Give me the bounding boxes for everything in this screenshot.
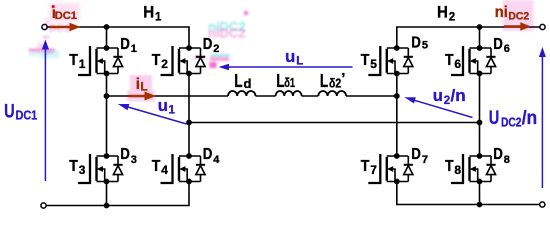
- svg-text:L: L: [296, 55, 303, 67]
- svg-text:/n: /n: [451, 87, 466, 105]
- current arrow niDC2: [504, 25, 521, 28]
- diode D7: [404, 156, 413, 182]
- svg-text:ni: ni: [495, 4, 508, 21]
- svg-text:δ1: δ1: [284, 75, 295, 90]
- svg-text:DC1: DC1: [55, 10, 77, 22]
- ghost highlight behind iDC1 label: [49, 3, 80, 22]
- wire: H1 bottom rail with corner up to T4: [46, 182, 189, 206]
- svg-text:T: T: [69, 158, 78, 175]
- svg-text:3: 3: [79, 163, 86, 177]
- diode D5: [404, 48, 413, 74]
- svg-text:T: T: [152, 158, 161, 175]
- svg-text:8: 8: [504, 154, 510, 166]
- svg-text:2: 2: [213, 43, 219, 55]
- ghost cyan dash left of uL arrow: [211, 54, 230, 57]
- ghost pink line through D2: [195, 56, 206, 59]
- transistor T1: [78, 45, 118, 76]
- terminal: DC1 negative: [41, 203, 46, 208]
- wire: H2 leg B middle (T6 source to T8 drain): [479, 74, 481, 157]
- svg-text:2: 2: [161, 57, 168, 71]
- wire: T8 leg to bottom rail: [479, 182, 481, 205]
- diode D3: [113, 156, 122, 182]
- wire: between Ldelta1 and Ldelta2: [302, 95, 319, 97]
- ghost pink dot above: [244, 11, 249, 16]
- node: lower link at H2 leg B: [477, 120, 483, 126]
- svg-text:T: T: [445, 52, 454, 69]
- svg-text:T: T: [69, 52, 78, 69]
- svg-text:D: D: [493, 146, 503, 163]
- terminal: DC2 positive: [540, 24, 545, 29]
- inductor Ldelta1: [276, 91, 302, 96]
- transistor T7: [368, 153, 408, 184]
- svg-text:T: T: [361, 52, 370, 69]
- svg-text:U: U: [4, 101, 15, 123]
- node: u1 upper node on leg A: [104, 93, 110, 99]
- svg-text:D: D: [120, 36, 130, 53]
- svg-text:’: ’: [341, 70, 345, 87]
- node: T1 leg / top rail junction: [104, 24, 110, 30]
- svg-text:L: L: [141, 81, 148, 93]
- ghost highlight behind niDC2 label and arrow: [503, 0, 534, 31]
- voltage arrow UDC1: [44, 48, 46, 181]
- transistor T3: [78, 153, 118, 184]
- svg-text:1: 1: [169, 105, 176, 117]
- svg-text:niDC2: niDC2: [208, 26, 246, 41]
- wire: lower link line leg B to H2 leg B: [189, 122, 480, 124]
- svg-text:U: U: [489, 107, 500, 129]
- transistor T8: [451, 153, 491, 184]
- node: upper link at H2 leg A: [394, 93, 400, 99]
- node: u1 lower node on leg B: [186, 120, 192, 126]
- wire: leg A middle (T1 source to T3 drain): [106, 74, 108, 157]
- wire: leg B middle (T2 source to T4 drain): [188, 74, 190, 157]
- svg-text:D: D: [120, 146, 130, 163]
- svg-text:2: 2: [449, 12, 455, 24]
- voltage arrow uL: [228, 66, 353, 68]
- svg-text:1: 1: [155, 12, 162, 24]
- wire: T3 leg to bottom rail: [106, 182, 108, 206]
- wire: H2 top rail with corner down to T5: [397, 27, 540, 48]
- svg-text:T: T: [152, 52, 161, 69]
- wire: H2 leg A middle (T5 source to T7 drain): [396, 74, 398, 157]
- node: T8 leg / H2 bottom rail junction: [477, 202, 483, 208]
- node: T6 leg / H2 top rail junction: [477, 24, 483, 30]
- transistor T4: [161, 153, 201, 184]
- svg-text:8: 8: [454, 163, 461, 177]
- ghost patch at UDC1 arrowhead: [38, 43, 45, 52]
- svg-text:4: 4: [213, 154, 220, 166]
- svg-text:D: D: [411, 146, 421, 163]
- svg-text:D: D: [203, 146, 213, 163]
- node: T3 leg / bottom rail junction: [104, 203, 110, 209]
- svg-text:7: 7: [370, 163, 377, 177]
- voltage arrow UDC2/n: [541, 56, 543, 188]
- diode D8: [486, 156, 495, 182]
- voltage arrow u1: [128, 107, 187, 124]
- voltage arrow u2/n: [415, 100, 473, 117]
- ghost cyan dash left: [29, 52, 40, 57]
- ghost highlight behind iL label: [130, 75, 152, 92]
- svg-text:H: H: [143, 3, 154, 22]
- svg-text:u: u: [433, 87, 443, 105]
- svg-text:u: u: [158, 97, 168, 115]
- transistor T2: [161, 45, 201, 76]
- ghost pink arrowhead right of UDC1 arrow: [46, 49, 56, 55]
- svg-text:DC1: DC1: [16, 109, 38, 123]
- svg-text:4: 4: [161, 163, 168, 177]
- svg-text:DC2: DC2: [508, 11, 529, 23]
- diode D4: [196, 156, 205, 182]
- svg-text:L: L: [234, 70, 242, 91]
- svg-text:D: D: [203, 36, 213, 53]
- wire: T6 leg from top rail: [479, 27, 481, 48]
- wire: upper link to H2 leg A: [346, 95, 397, 97]
- svg-text:D: D: [493, 36, 503, 53]
- svg-text:6: 6: [504, 43, 510, 55]
- diode D6: [486, 48, 495, 74]
- diode D2: [196, 48, 205, 74]
- svg-text:i: i: [136, 76, 140, 93]
- wire: H1 top rail with corner down to T2: [47, 27, 189, 48]
- svg-text:2: 2: [444, 95, 450, 107]
- svg-text:6: 6: [454, 57, 461, 71]
- svg-text:T: T: [361, 158, 370, 175]
- terminal: DC1 positive: [42, 24, 47, 29]
- svg-text:δ2: δ2: [329, 76, 341, 91]
- svg-text:5: 5: [422, 40, 428, 52]
- terminal: DC2 negative: [540, 202, 545, 207]
- current arrow iL: [129, 95, 146, 98]
- svg-text:L: L: [320, 70, 328, 91]
- svg-text:/n: /n: [522, 107, 538, 129]
- inductor Ld: [228, 91, 256, 96]
- svg-text:DC2: DC2: [501, 116, 522, 130]
- svg-text:D: D: [411, 35, 421, 52]
- svg-text:7: 7: [422, 154, 428, 166]
- current arrow iDC1: [50, 26, 70, 29]
- svg-text:u: u: [285, 48, 295, 66]
- wire: T1 leg from top rail: [106, 27, 108, 48]
- wire: H2 bottom rail with corner up to T7: [397, 182, 540, 205]
- ghost highlight behind iL arrow: [127, 91, 155, 102]
- ghost pink smudge above arrowhead: [43, 36, 50, 39]
- inductor Ldelta2': [318, 91, 346, 96]
- svg-text:H: H: [437, 3, 448, 22]
- svg-text:1: 1: [79, 57, 86, 71]
- svg-text:T: T: [445, 158, 454, 175]
- svg-text:3: 3: [131, 154, 137, 166]
- wire: between Ld and Ldelta1: [256, 95, 276, 97]
- wire: upper link line with inductors: [107, 95, 229, 97]
- ghost pink dash left of uL arrow: [210, 57, 229, 61]
- ghost cyan wash below arrowhead: [40, 50, 59, 58]
- transistor T5: [368, 45, 408, 76]
- svg-text:1: 1: [131, 43, 137, 55]
- diode D1: [113, 48, 122, 74]
- svg-text:5: 5: [370, 57, 377, 71]
- svg-text:d: d: [244, 76, 252, 91]
- ghost strip left of UDC1 arrow: [29, 49, 55, 52]
- transistor T6: [451, 45, 491, 76]
- ghost pink square below uL dash: [210, 62, 217, 68]
